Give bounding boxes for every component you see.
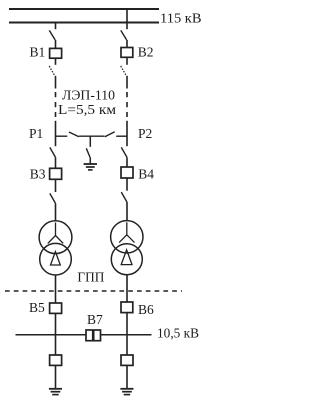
breaker B1 [50,48,62,58]
svg-text:ЛЭП-110: ЛЭП-110 [62,88,115,103]
svg-text:В3: В3 [30,166,46,181]
tie disconnector blade right [105,132,115,137]
svg-text:115 кВ: 115 кВ [160,11,202,26]
wire blade to B2 [126,40,128,48]
svg-text:Р2: Р2 [138,126,152,141]
svg-text:Р1: Р1 [29,126,43,141]
transformer T1 wye symbol [48,223,63,244]
bus 115kV line 2 [9,22,159,24]
ground symbol bottom left [49,388,62,390]
breaker B2 [121,48,133,58]
wire below B4 [126,178,128,191]
wire P2 to B4 [126,157,128,167]
wire T1 to B5 [55,275,57,303]
earthing switch blade [86,148,90,158]
disconnector P1 blade [50,147,56,157]
sectionalizing breaker B7 [86,330,101,341]
svg-text:В5: В5 [29,300,45,315]
wire earthing branch [89,136,91,147]
disconnector P2 blade [121,147,127,157]
svg-text:В6: В6 [138,302,154,317]
wire below B1 [55,58,57,65]
wire T2 to B6 [126,275,128,302]
ground symbol bottom right [120,388,133,390]
feeder breaker bottom right [121,355,133,365]
wire tie line from P1 [56,135,68,137]
wire ЛЭП-110 dashed line left [55,92,57,117]
svg-text:В4: В4 [138,167,154,182]
wire left feeder from bus 2 [55,23,57,29]
wire below B2 [126,57,128,65]
wire tie line middle [79,135,105,137]
transformer T1 delta symbol [51,252,61,265]
transformer T2 delta symbol [121,250,132,265]
wire ЛЭП solid part right [126,76,128,89]
transformer T2 primary winding [111,221,143,253]
svg-text:10,5 кВ: 10,5 кВ [157,327,199,342]
wire ЛЭП to P2 [126,121,128,146]
breaker B6 [121,302,133,313]
svg-text:В1: В1 [30,45,46,60]
svg-text:L=5,5 км: L=5,5 км [58,103,116,118]
breaker B4 [121,167,133,178]
transformer disconnector blade left [50,193,56,203]
feeder breaker bottom left [50,355,62,365]
transformer T1 primary winding [39,221,72,254]
disconnector blade above B1 [49,30,55,40]
wire to ground left [55,365,57,388]
transformer disconnector blade right [121,192,127,202]
wire blade to B1 [55,40,57,48]
wire below B3 [55,179,57,192]
wire ЛЭП-110 dashed line right [126,92,128,117]
wire blade to ground [89,158,91,164]
boundary dashed line ГПП [5,290,182,292]
tie disconnector blade left [69,132,79,137]
dashed line-side blade right [121,66,127,76]
svg-text:В2: В2 [138,45,154,60]
wire B6 to 10.5kV bus and feeder [126,313,128,355]
disconnector blade above B2 [121,30,127,40]
wire ЛЭП solid part left [55,76,57,89]
breaker B3 [50,168,62,179]
wire blade to transformer T2 [126,202,128,221]
wire right feeder from bus 1 [126,9,128,29]
transformer T2 wye symbol [119,222,134,242]
wire ЛЭП to P1 [55,121,57,146]
wire tie line to P2 [116,135,127,137]
wire B5 to 10.5kV bus and feeder [55,313,57,355]
breaker B5 [50,303,62,313]
transformer T1 secondary winding [40,243,72,275]
wire P1 to B3 [55,157,57,168]
ground symbol center [84,163,97,165]
wire blade to transformer T1 [55,203,57,221]
svg-text:ГПП: ГПП [77,271,104,286]
dashed line-side blade left [49,66,55,76]
transformer T2 secondary winding [111,244,142,275]
bus 10.5kV [16,334,152,336]
svg-text:В7: В7 [87,312,103,327]
bus 115kV line 1 (top) [9,8,159,10]
wire to ground right [126,365,128,388]
